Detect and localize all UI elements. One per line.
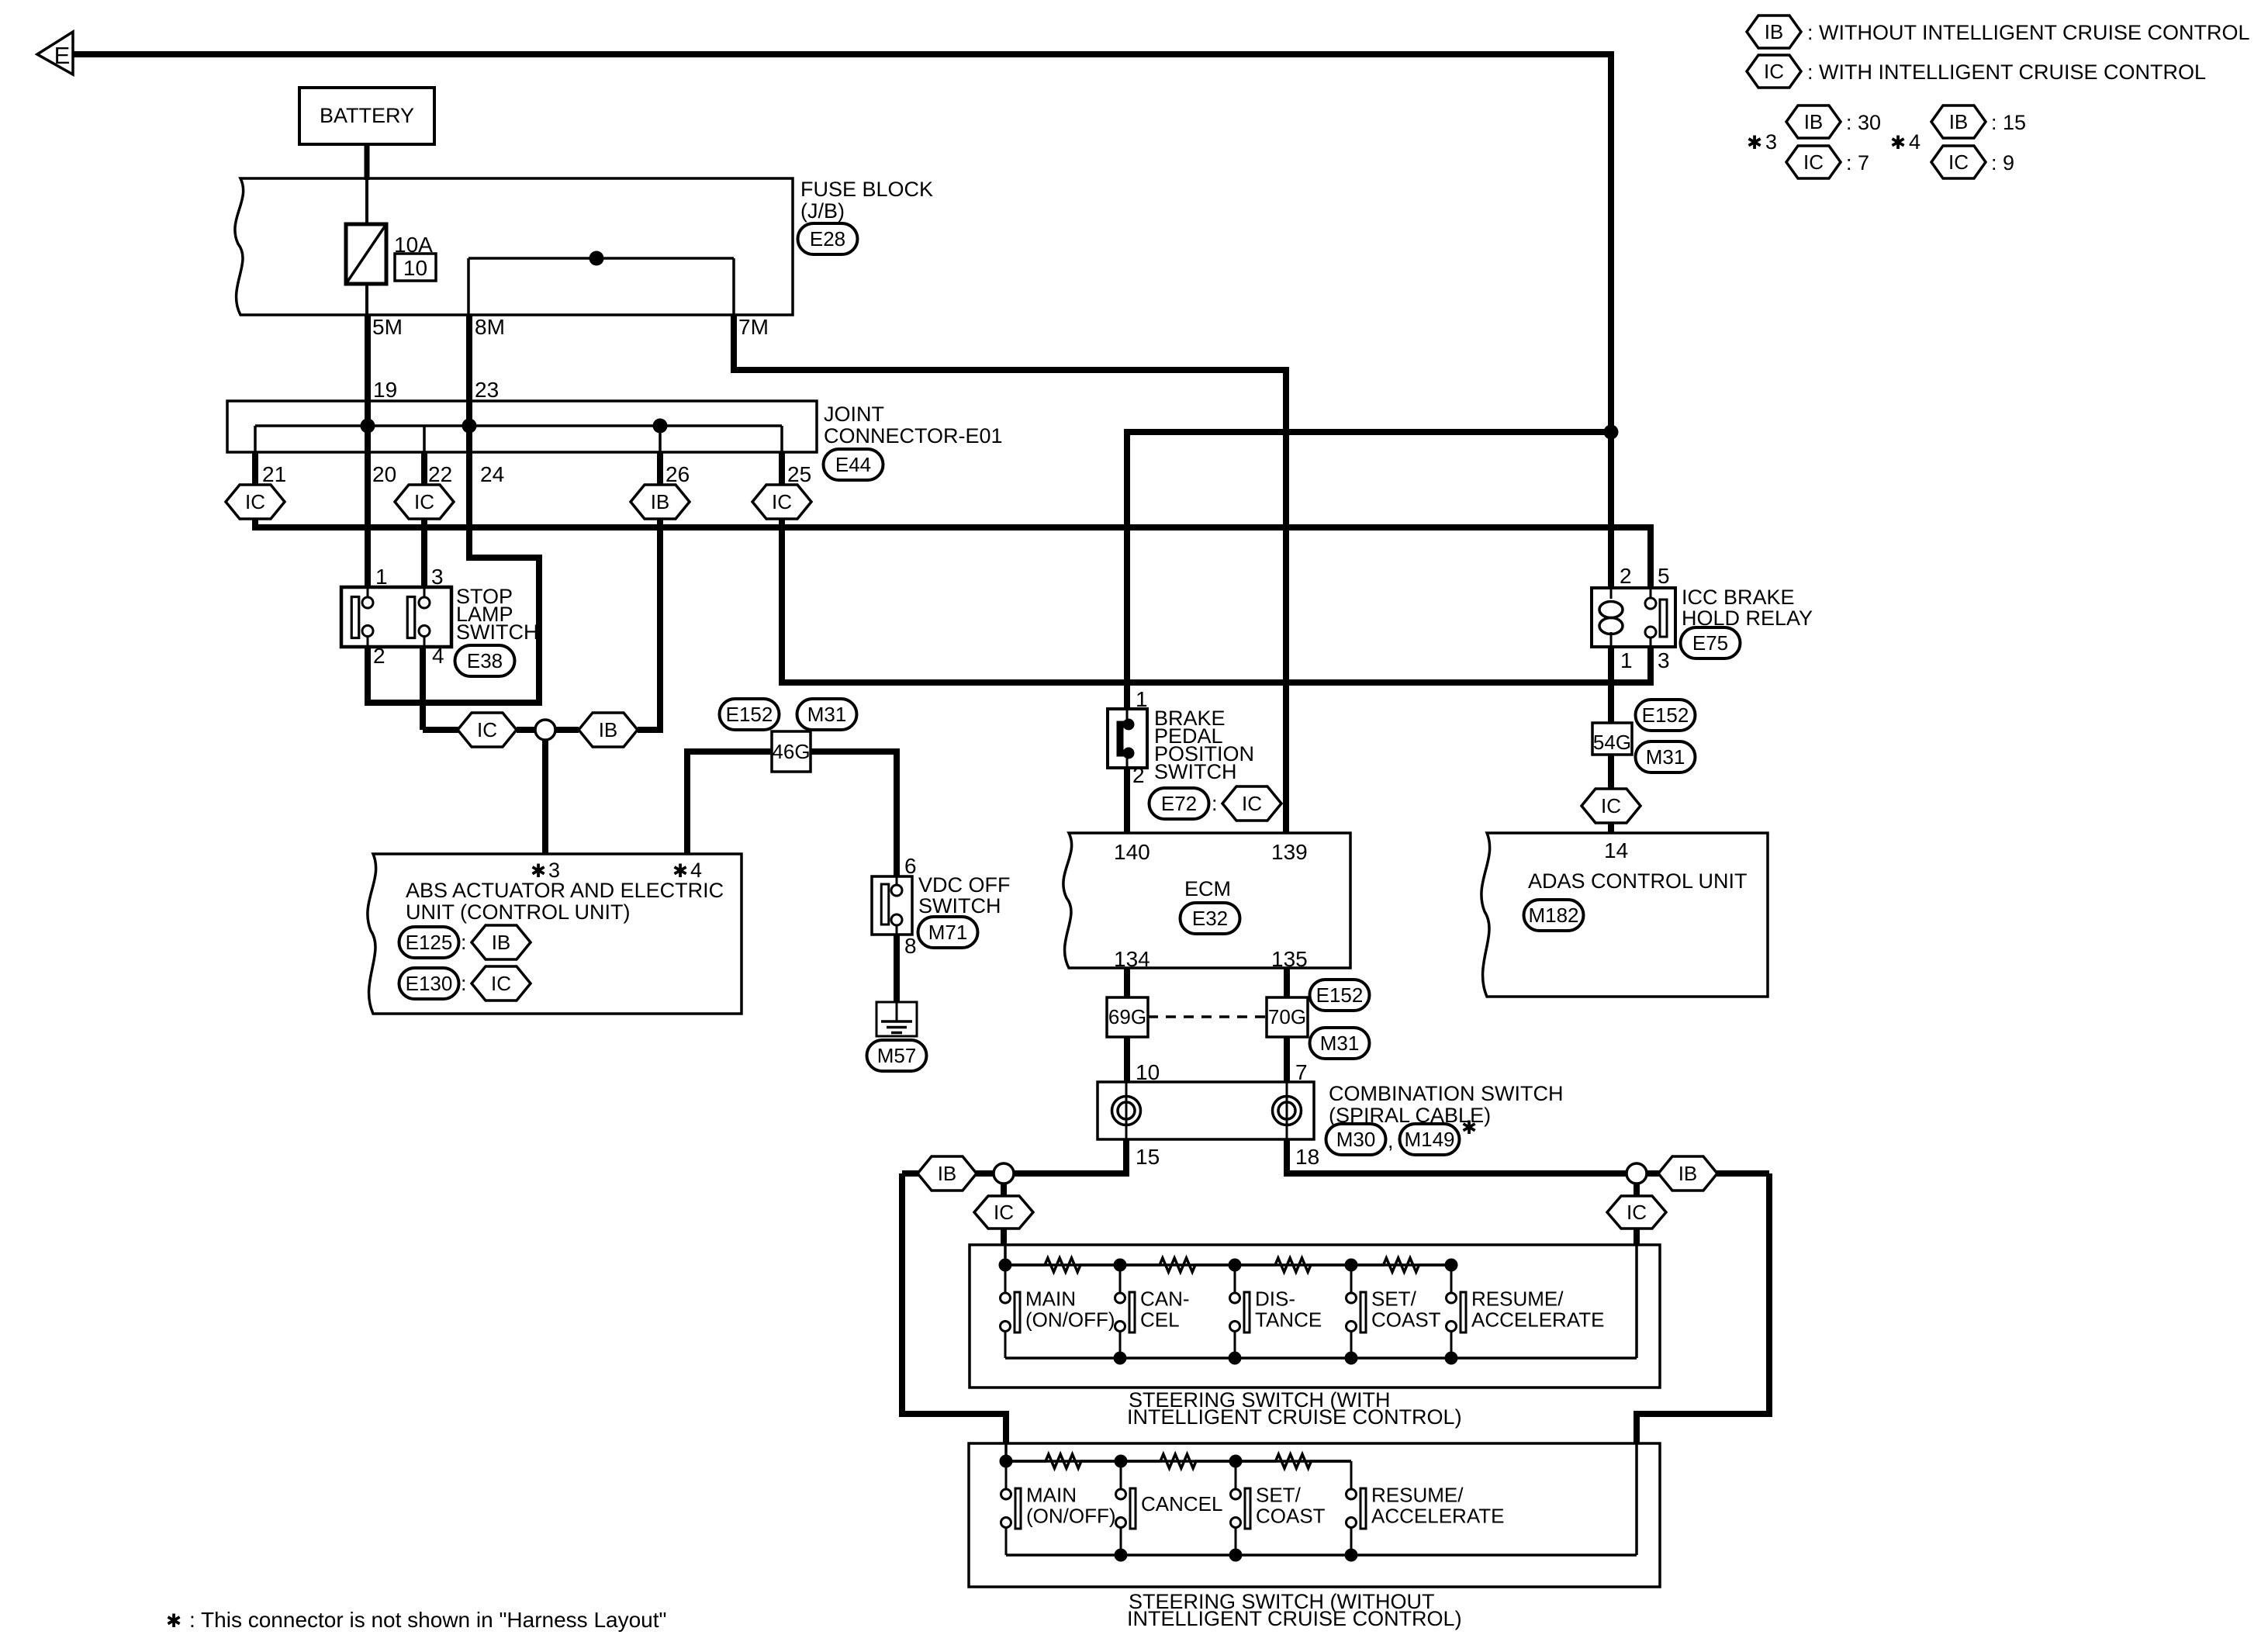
combination switch box — [1098, 1082, 1314, 1139]
svg-text:19: 19 — [373, 378, 397, 402]
connector box 69G — [1107, 997, 1148, 1037]
svg-text:M71: M71 — [928, 921, 968, 944]
hexagon IC pin 21 — [226, 485, 285, 519]
wire battery feed into fuse — [365, 180, 368, 224]
wire trunk from E to ICC brake hold relay pin 2 — [73, 54, 1611, 588]
svg-text:14: 14 — [1604, 838, 1628, 862]
svg-text:: 9: : 9 — [1991, 151, 2014, 175]
svg-text:IC: IC — [1948, 150, 1969, 174]
wire IC to with-ICC box left — [1001, 1229, 1007, 1245]
ground M57 — [876, 1002, 917, 1036]
fuse block internal bus wire — [468, 257, 734, 260]
svg-text:140: 140 — [1114, 840, 1150, 864]
joint connector-E01 box — [227, 401, 817, 452]
without-ICC bottom bus — [1006, 1554, 1637, 1557]
svg-text:135: 135 — [1271, 947, 1308, 971]
svg-text:IC: IC — [1627, 1201, 1647, 1224]
svg-text:IC: IC — [491, 972, 511, 995]
svg-text:8M: 8M — [475, 315, 505, 339]
svg-text:26: 26 — [666, 462, 690, 486]
svg-text:6: 6 — [904, 854, 917, 878]
svg-text:E44: E44 — [835, 453, 871, 476]
svg-text:10: 10 — [403, 256, 427, 280]
svg-text:✱: ✱ — [1461, 1118, 1477, 1139]
without-ICC switch SET/COAST — [1229, 1455, 1243, 1468]
connector box 54G — [1592, 723, 1632, 755]
connector arrow E — [37, 32, 73, 74]
svg-text:SWITCH: SWITCH — [918, 894, 1001, 918]
svg-text:UNIT (CONTROL UNIT): UNIT (CONTROL UNIT) — [406, 900, 631, 924]
without-ICC switch RESUME/ACCELERATE — [1350, 1461, 1353, 1489]
with-ICC switch CAN-CEL — [1114, 1259, 1127, 1272]
junction circle steering left — [994, 1163, 1014, 1184]
hexagon IC ADAS feed — [1582, 789, 1640, 823]
dashed link 69G-70G — [1148, 1015, 1267, 1018]
VDC off switch M71 — [872, 876, 912, 935]
svg-text:E125: E125 — [406, 931, 453, 954]
svg-text:(ON/OFF): (ON/OFF) — [1025, 1308, 1115, 1332]
wire BPP pin 2 to ECM pin 140 — [1124, 768, 1130, 833]
connector oval E72 with IC — [1150, 788, 1209, 819]
svg-text:MAIN: MAIN — [1025, 1287, 1076, 1311]
svg-text:1: 1 — [375, 565, 388, 589]
svg-text:2: 2 — [1132, 763, 1145, 787]
with-ICC switch MAIN(ON/OFF) — [999, 1259, 1012, 1272]
joint connector internal bus — [255, 424, 782, 427]
without-ICC switch CANCEL — [1115, 1455, 1128, 1468]
svg-text:4: 4 — [432, 644, 444, 668]
note *3 IB : 30 — [1786, 105, 1841, 138]
svg-text:CONNECTOR-E01: CONNECTOR-E01 — [824, 424, 1003, 448]
connector oval E130 with IC — [399, 968, 459, 999]
svg-text:3: 3 — [1658, 648, 1670, 672]
with-ICC top bus — [1004, 1245, 1007, 1265]
with-ICC resistor 2 — [1120, 1258, 1235, 1272]
wire bus from IC-21 to ICC brake hold relay pin 5 — [255, 519, 1651, 588]
connector oval M31 right — [1636, 741, 1696, 772]
svg-text:: This connector is not shown: : This connector is not shown in "Harnes… — [189, 1608, 666, 1632]
hexagon IC steering right — [1607, 1196, 1666, 1229]
svg-text:BATTERY: BATTERY — [320, 104, 414, 127]
svg-text:: WITH INTELLIGENT CRUISE CONT: : WITH INTELLIGENT CRUISE CONTROL — [1807, 60, 2206, 84]
svg-text:3: 3 — [431, 565, 444, 589]
svg-text:E28: E28 — [810, 227, 845, 251]
hexagon IC stop lamp branch — [458, 713, 517, 747]
svg-text:ECM: ECM — [1184, 877, 1231, 900]
wire stop lamp pin4 junction row — [423, 727, 461, 733]
steering switch with ICC box — [970, 1245, 1660, 1388]
steering switch without ICC box — [969, 1443, 1660, 1587]
spiral cable left — [1125, 1082, 1128, 1139]
wire battery to fuse block — [365, 144, 370, 180]
junction dot pin 24 — [462, 419, 477, 434]
without-ICC resistor 1 — [1006, 1454, 1121, 1468]
hexagon IC pin 25 — [752, 485, 811, 519]
svg-text:5M: 5M — [372, 315, 403, 339]
svg-text:M31: M31 — [1320, 1032, 1360, 1055]
wire 54G to IC hexagon — [1608, 755, 1614, 790]
svg-text:: 30: : 30 — [1846, 111, 1881, 134]
svg-text:IC: IC — [1764, 60, 1784, 83]
wire 69G to combination switch pin 10 — [1124, 1037, 1130, 1082]
wire IB branch to joint connector pin 26 — [638, 519, 660, 730]
svg-text:IB: IB — [1678, 1162, 1698, 1185]
svg-text:COAST: COAST — [1371, 1308, 1441, 1332]
with-ICC bottom bus — [1005, 1357, 1637, 1360]
svg-text:E75: E75 — [1692, 631, 1728, 655]
connector oval M31 mid — [1310, 1028, 1370, 1059]
svg-text:(ON/OFF): (ON/OFF) — [1026, 1505, 1116, 1528]
pin 26 stub — [659, 426, 662, 452]
pin 21 stub — [254, 426, 257, 452]
without-ICC top bus — [1004, 1443, 1008, 1461]
relay contact — [1650, 588, 1652, 598]
svg-text:IC: IC — [1242, 792, 1262, 815]
wire ECM pin 134 to 69G — [1124, 968, 1130, 997]
with-ICC switch SET/COAST — [1345, 1259, 1358, 1272]
spiral cable right — [1286, 1082, 1288, 1139]
wire 70G to combination switch pin 7 — [1284, 1037, 1290, 1082]
svg-text:1: 1 — [1620, 648, 1633, 672]
svg-text:MAIN: MAIN — [1026, 1484, 1077, 1507]
svg-text:8: 8 — [904, 934, 917, 958]
junction circle stop lamp branch — [535, 720, 555, 740]
svg-text:E152: E152 — [726, 703, 773, 726]
wire fuse to 5M — [365, 284, 368, 315]
svg-text:SWITCH: SWITCH — [456, 620, 538, 644]
svg-text:IC: IC — [772, 490, 792, 513]
wire junction to ABS unit *3 — [542, 740, 548, 854]
junction dot trunk / brake feed — [1604, 425, 1619, 440]
svg-text:IC: IC — [994, 1201, 1014, 1224]
svg-text:M30: M30 — [1336, 1128, 1376, 1151]
hexagon IB steering right — [1658, 1156, 1717, 1191]
svg-text:M31: M31 — [807, 703, 847, 726]
svg-text::: : — [461, 972, 467, 995]
connector oval E28 — [798, 223, 858, 254]
hexagon IB pin 26 — [631, 485, 690, 519]
hexagon IC pin 22 — [395, 485, 454, 519]
note *4 IC : 9 — [1931, 146, 1986, 178]
pin 22 stub — [423, 426, 426, 452]
with-ICC resistor 4 — [1351, 1258, 1451, 1272]
junction dot pin 26 — [653, 419, 668, 434]
junction dot fuse block bus — [589, 251, 604, 266]
svg-text:: WITHOUT INTELLIGENT CRUISE C: : WITHOUT INTELLIGENT CRUISE CONTROL — [1807, 21, 2250, 44]
svg-text:2: 2 — [1620, 564, 1632, 588]
svg-text:25: 25 — [787, 462, 811, 486]
svg-text:IB: IB — [938, 1162, 957, 1185]
battery — [299, 88, 434, 144]
legend IC symbol — [1747, 55, 1801, 88]
wire combination switch pin 15 to steering feed left — [902, 1139, 1126, 1173]
wire 8M to joint connector pin 23 — [466, 315, 472, 426]
svg-text:20: 20 — [372, 462, 396, 486]
wire junction to IC hexagon right — [1634, 1184, 1640, 1196]
fuse 10A — [346, 224, 386, 284]
connector oval E152 right — [1636, 700, 1696, 731]
svg-text:CEL: CEL — [1140, 1308, 1180, 1332]
junction dot pin 20 — [361, 419, 375, 434]
with-ICC switch RESUME/ACCELERATE — [1445, 1259, 1458, 1272]
connector oval E32 — [1181, 903, 1240, 934]
svg-text:INTELLIGENT CRUISE CONTROL): INTELLIGENT CRUISE CONTROL) — [1127, 1405, 1462, 1429]
svg-text:46G: 46G — [772, 740, 810, 763]
relay coil — [1610, 588, 1613, 599]
connector oval E125 with IB — [399, 927, 459, 958]
connector oval E44 — [824, 449, 883, 480]
svg-text:IC: IC — [414, 490, 434, 513]
wire pin 20 to stop lamp switch pin 1 — [365, 426, 371, 587]
svg-text:70G: 70G — [1268, 1005, 1306, 1028]
without-ICC switch MAIN(ON/OFF) — [1000, 1455, 1013, 1468]
svg-text::: : — [461, 931, 467, 954]
wire combination switch pin 18 to steering feed right — [1287, 1139, 1769, 1173]
wire ABS *4 to 46G — [687, 752, 772, 854]
wire steering feed left to without-ICC box — [902, 1173, 1006, 1443]
ICC brake hold relay E75 box — [1592, 588, 1675, 647]
svg-text:134: 134 — [1114, 947, 1150, 971]
svg-text:CAN-: CAN- — [1140, 1287, 1190, 1311]
with-ICC resistor 3 — [1235, 1258, 1351, 1272]
svg-text:SWITCH: SWITCH — [1154, 760, 1236, 783]
wire stop-lamp feed bus to ICC relay pin 3 — [782, 519, 1651, 683]
stop lamp switch E38 — [341, 587, 451, 647]
wire VDC off switch to ground — [894, 935, 900, 1002]
wire 7M to ECM pin 139 — [734, 315, 1286, 833]
hexagon IB steering left — [918, 1156, 977, 1191]
svg-text:M31: M31 — [1646, 745, 1685, 769]
wire ECM pin 135 to 70G — [1284, 968, 1290, 997]
svg-text:IB: IB — [492, 931, 511, 954]
svg-text:22: 22 — [428, 462, 452, 486]
svg-text:15: 15 — [1136, 1145, 1160, 1169]
wire stop lamp switch pin 4 to junction — [420, 647, 426, 730]
wire ICC relay pin1 to 54G — [1608, 647, 1614, 723]
wire 46G to VDC off switch pin 6 — [811, 752, 897, 876]
svg-text:SET/: SET/ — [1256, 1484, 1302, 1507]
svg-text:IB: IB — [1949, 110, 1969, 133]
svg-text:IC: IC — [245, 490, 265, 513]
svg-text:VDC OFF: VDC OFF — [918, 873, 1011, 897]
ABS actuator and electric unit box — [368, 854, 742, 1014]
svg-text:COMBINATION SWITCH: COMBINATION SWITCH — [1329, 1082, 1563, 1105]
svg-text:E38: E38 — [467, 649, 503, 672]
ADAS control unit box — [1481, 833, 1768, 997]
connector oval M30 — [1326, 1124, 1386, 1155]
svg-text:IC: IC — [1803, 150, 1824, 174]
wire 5M to joint connector pin 19 — [365, 315, 371, 426]
svg-text:ICC BRAKE: ICC BRAKE — [1682, 586, 1795, 609]
wire steering feed right to without-ICC box — [1637, 1173, 1769, 1443]
svg-text:✱: ✱ — [166, 1611, 182, 1632]
wire pin 22 to stop lamp switch pin 3 — [421, 519, 427, 587]
svg-text:ABS ACTUATOR AND ELECTRIC: ABS ACTUATOR AND ELECTRIC — [406, 879, 724, 902]
fuse number box 10 — [395, 254, 436, 281]
hexagon IB stop lamp branch — [579, 713, 638, 747]
wire junction to IC hexagon left — [1001, 1184, 1007, 1196]
hexagon IC steering left — [974, 1196, 1033, 1229]
svg-text:RESUME/: RESUME/ — [1471, 1287, 1564, 1311]
svg-text:E152: E152 — [1642, 703, 1689, 727]
wire IC to with-ICC box right — [1634, 1229, 1640, 1245]
svg-text:7M: 7M — [738, 315, 769, 339]
connector oval E152 mid — [1310, 980, 1370, 1011]
svg-text:24: 24 — [480, 462, 504, 486]
svg-text:E72: E72 — [1161, 792, 1197, 815]
svg-text:IC: IC — [1601, 794, 1621, 817]
svg-text:✱: ✱ — [1747, 133, 1762, 154]
svg-text:M182: M182 — [1528, 904, 1578, 927]
svg-text:ACCELERATE: ACCELERATE — [1371, 1505, 1504, 1528]
connector oval E152 above 46G — [720, 699, 780, 730]
svg-text:IB: IB — [599, 718, 618, 741]
without-ICC resistor 2 — [1121, 1454, 1236, 1468]
svg-text:21: 21 — [262, 462, 286, 486]
svg-text:RESUME/: RESUME/ — [1371, 1484, 1464, 1507]
connector oval M57 — [867, 1040, 927, 1071]
svg-text:✱: ✱ — [1890, 133, 1906, 154]
connector oval M182 — [1524, 900, 1584, 931]
svg-text:54G: 54G — [1593, 731, 1631, 754]
svg-text:2: 2 — [373, 644, 385, 668]
svg-text:M149: M149 — [1404, 1128, 1454, 1151]
svg-text:: 15: : 15 — [1991, 111, 2026, 134]
svg-text:SET/: SET/ — [1371, 1287, 1417, 1311]
svg-text:: 7: : 7 — [1846, 151, 1869, 175]
connector oval E38 — [455, 645, 515, 676]
svg-text:INTELLIGENT CRUISE CONTROL): INTELLIGENT CRUISE CONTROL) — [1127, 1607, 1462, 1630]
svg-text:M57: M57 — [877, 1044, 917, 1067]
svg-text:5: 5 — [1658, 564, 1670, 588]
pin 25 stub — [780, 426, 783, 452]
ECM box — [1063, 833, 1350, 968]
with-ICC switch DIS-TANCE — [1229, 1259, 1242, 1272]
svg-text:COAST: COAST — [1256, 1505, 1326, 1528]
legend IB symbol — [1747, 16, 1801, 48]
brake pedal position switch E72 — [1108, 709, 1147, 768]
connector oval M149 — [1400, 1124, 1460, 1155]
svg-text:IB: IB — [1765, 20, 1784, 43]
svg-text:E152: E152 — [1316, 983, 1364, 1007]
svg-text:IB: IB — [651, 490, 670, 513]
connector oval M31 above 46G — [797, 699, 857, 730]
svg-text:E32: E32 — [1192, 907, 1228, 930]
svg-text:FUSE BLOCK: FUSE BLOCK — [800, 178, 933, 201]
svg-text:139: 139 — [1271, 840, 1308, 864]
svg-text:23: 23 — [475, 378, 499, 402]
connector box 70G — [1267, 997, 1308, 1037]
junction circle steering right — [1627, 1163, 1647, 1184]
svg-text:TANCE: TANCE — [1255, 1308, 1322, 1332]
svg-text:4: 4 — [1909, 130, 1920, 154]
svg-text:3: 3 — [1765, 130, 1777, 154]
wire brake feed from trunk to brake pedal position switch pin 1 — [1127, 432, 1611, 709]
svg-text:ADAS CONTROL UNIT: ADAS CONTROL UNIT — [1528, 869, 1748, 893]
svg-text:(J/B): (J/B) — [800, 199, 845, 223]
svg-text:E: E — [54, 42, 71, 69]
with-ICC resistor 1 — [1005, 1258, 1120, 1272]
svg-text:JOINT: JOINT — [824, 403, 884, 426]
without-ICC resistor 3 — [1236, 1454, 1351, 1468]
svg-text::: : — [1212, 792, 1218, 815]
fuse block (J/B) E28 box — [235, 178, 793, 315]
svg-text:IC: IC — [477, 718, 497, 741]
wire IC hexagon to ADAS pin 14 — [1608, 822, 1614, 833]
connector oval E75 — [1681, 627, 1741, 658]
wire pin 24 to stop lamp switch pin 2 — [368, 426, 539, 703]
svg-text:DIS-: DIS- — [1255, 1287, 1295, 1311]
connector box 46G — [772, 731, 811, 772]
note *4 IB : 15 — [1931, 105, 1986, 138]
svg-text:1: 1 — [1136, 687, 1148, 711]
svg-text:,: , — [1388, 1129, 1394, 1153]
svg-text:ACCELERATE: ACCELERATE — [1471, 1308, 1604, 1332]
svg-text:IB: IB — [1804, 110, 1824, 133]
note *3 IC : 7 — [1786, 146, 1841, 178]
connector oval M71 — [918, 917, 978, 948]
svg-text:18: 18 — [1295, 1145, 1319, 1169]
svg-text:69G: 69G — [1108, 1005, 1146, 1028]
svg-text:E130: E130 — [406, 972, 453, 995]
svg-text:CANCEL: CANCEL — [1141, 1492, 1222, 1515]
